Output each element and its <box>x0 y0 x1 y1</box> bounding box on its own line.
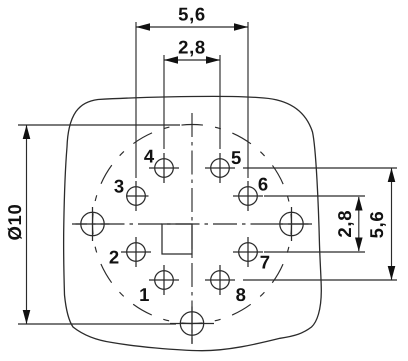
pin 1 <box>149 265 179 295</box>
svg-text:Ø10: Ø10 <box>4 203 25 240</box>
arrows 5,6 top <box>136 23 150 31</box>
svg-text:5: 5 <box>231 147 241 168</box>
svg-text:7: 7 <box>260 251 270 272</box>
pin 4 <box>149 153 179 183</box>
vertical centerline <box>191 113 193 343</box>
dimension 2,8 top: extension lines <box>164 55 220 149</box>
dimension 5,6 right: dimension line <box>391 168 393 280</box>
bottom coding hole <box>170 307 214 345</box>
svg-text:5,6: 5,6 <box>366 211 387 239</box>
arrows 2,8 top <box>164 56 178 64</box>
right coding hole <box>275 207 309 241</box>
right dims: extension lines <box>243 168 397 280</box>
arrows 2,8 right <box>355 197 363 211</box>
pin 7 <box>233 237 263 267</box>
dimension 5,6 top: dimension line <box>136 26 248 28</box>
svg-text:8: 8 <box>236 284 246 305</box>
connector body outline <box>64 96 322 350</box>
dimension 2,8 top: dimension line <box>164 59 220 61</box>
arrows O10 left <box>23 125 31 139</box>
dimension 2,8 right: dimension line <box>358 197 360 251</box>
svg-text:6: 6 <box>258 174 268 195</box>
left coding hole <box>76 207 110 241</box>
arrows 5,6 right <box>388 168 396 182</box>
svg-text:2: 2 <box>109 246 119 267</box>
svg-text:1: 1 <box>139 284 149 305</box>
pin 2 <box>121 237 151 267</box>
svg-text:4: 4 <box>144 145 155 166</box>
arrowheads <box>23 23 396 324</box>
svg-text:5,6: 5,6 <box>178 4 206 25</box>
pin 3 <box>126 181 149 211</box>
horizontal centerline <box>72 223 313 225</box>
pin 8 <box>205 265 235 295</box>
pitch circle O10 (dashed) <box>93 125 292 324</box>
svg-text:2,8: 2,8 <box>334 210 355 238</box>
dimension 5,6 top: extension lines <box>136 22 248 178</box>
pin 5 <box>205 153 235 183</box>
svg-text:2,8: 2,8 <box>178 37 206 58</box>
dimension O10 left: dimension line <box>26 125 28 324</box>
pin 6 <box>233 181 263 211</box>
svg-text:3: 3 <box>114 176 124 197</box>
center keyway square <box>162 224 192 254</box>
dimension O10 left: extension lines <box>18 125 180 324</box>
